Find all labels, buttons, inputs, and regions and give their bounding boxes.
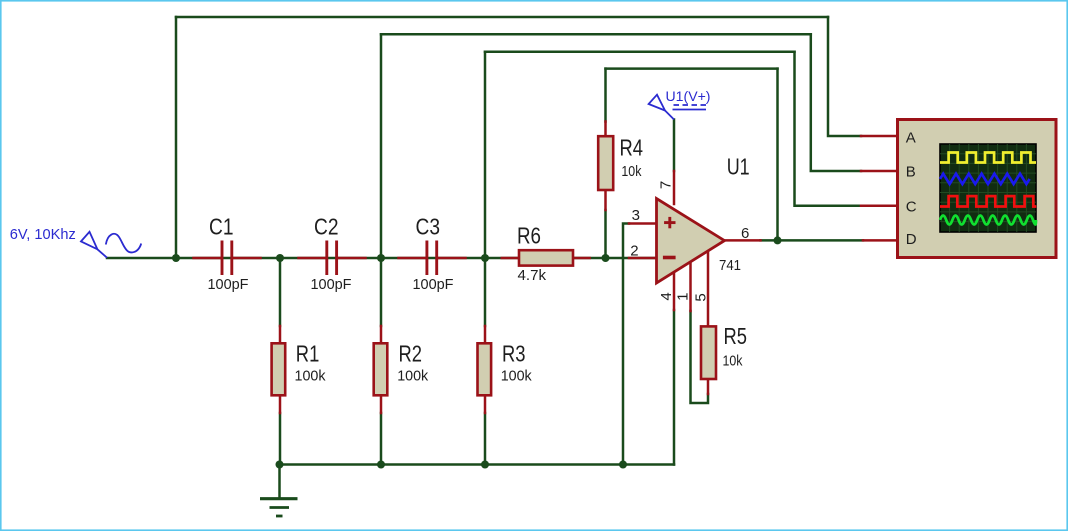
- svg-text:4: 4: [658, 292, 675, 300]
- svg-text:C2: C2: [314, 214, 339, 240]
- svg-text:100pF: 100pF: [311, 276, 352, 293]
- svg-text:A: A: [906, 130, 916, 147]
- svg-text:C3: C3: [416, 214, 441, 240]
- svg-text:6: 6: [741, 225, 749, 242]
- svg-text:5: 5: [693, 293, 710, 301]
- svg-text:100k: 100k: [397, 368, 428, 385]
- svg-text:100pF: 100pF: [413, 276, 454, 293]
- svg-text:3: 3: [632, 207, 640, 224]
- svg-text:100k: 100k: [501, 368, 532, 385]
- svg-text:R3: R3: [502, 341, 526, 367]
- svg-text:R5: R5: [724, 323, 748, 349]
- svg-text:R6: R6: [517, 223, 541, 249]
- svg-text:10k: 10k: [723, 353, 743, 370]
- svg-text:100k: 100k: [295, 368, 326, 385]
- svg-text:741: 741: [719, 257, 741, 274]
- svg-text:6V, 10Khz: 6V, 10Khz: [10, 226, 76, 243]
- svg-text:C1: C1: [209, 214, 234, 240]
- svg-text:4.7k: 4.7k: [518, 267, 547, 284]
- svg-text:10k: 10k: [621, 163, 641, 180]
- svg-text:100pF: 100pF: [208, 276, 249, 293]
- svg-text:R4: R4: [620, 135, 644, 161]
- svg-text:D: D: [906, 231, 917, 248]
- svg-text:2: 2: [630, 243, 638, 260]
- svg-text:B: B: [906, 164, 916, 181]
- svg-text:7: 7: [658, 181, 675, 189]
- svg-text:R1: R1: [296, 341, 320, 367]
- svg-text:U1: U1: [727, 154, 750, 180]
- svg-text:C: C: [906, 199, 917, 216]
- svg-text:U1(V+): U1(V+): [666, 88, 711, 104]
- svg-text:1: 1: [675, 293, 692, 301]
- svg-text:R2: R2: [399, 341, 423, 367]
